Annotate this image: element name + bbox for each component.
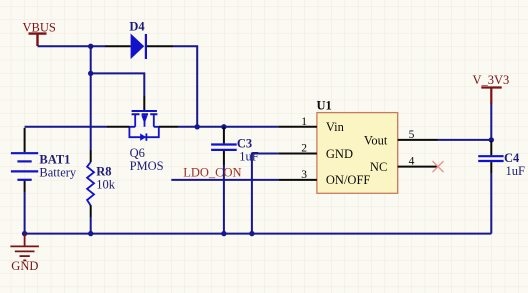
- rail junction at C3: [221, 231, 226, 236]
- svg-text:VBUS: VBUS: [23, 20, 56, 34]
- rail junction at pin2 wire: [249, 231, 254, 236]
- svg-text:C4: C4: [504, 151, 520, 165]
- wire LDO_CON to U1 pin3: [171, 179, 278, 181]
- wire C4 to rail: [490, 173, 492, 234]
- wire up to V_3V3: [490, 103, 492, 140]
- wire C3 to rail: [223, 165, 225, 234]
- svg-text:NC: NC: [370, 160, 387, 174]
- svg-text:D4: D4: [129, 20, 145, 34]
- wire Q6 right to U1 pin1: [178, 126, 278, 128]
- pin 2 GND: [278, 143, 353, 161]
- node junction E: [221, 124, 226, 129]
- diode D4: [105, 20, 173, 60]
- rail junction at battery/GND: [22, 231, 27, 236]
- node junction C: [195, 124, 200, 129]
- svg-text:3: 3: [301, 169, 307, 181]
- node junction A: [88, 44, 93, 49]
- svg-text:5: 5: [409, 129, 415, 141]
- no-connect X on pin 4: [433, 161, 444, 172]
- svg-text:PMOS: PMOS: [130, 159, 164, 173]
- power port VBUS: [23, 20, 56, 46]
- svg-text:R8: R8: [96, 164, 111, 178]
- Q6 right lead: [159, 126, 178, 128]
- transistor Q6 PMOS: [129, 96, 163, 173]
- wire battery bottom to rail: [24, 192, 26, 234]
- capacitor C3: [211, 127, 259, 165]
- svg-text:LDO_CON: LDO_CON: [183, 165, 241, 179]
- pin 4 NC: [370, 156, 438, 174]
- capacitor C4: [478, 141, 525, 178]
- ground GND: [10, 234, 39, 274]
- power port V_3V3: [473, 73, 510, 103]
- svg-text:2: 2: [301, 143, 307, 155]
- node junction pin5: [489, 137, 494, 142]
- rail junction at R8: [88, 231, 93, 236]
- wire D4 cathode to corner down to Vin node: [173, 46, 197, 127]
- svg-text:4: 4: [409, 156, 415, 168]
- svg-text:Q6: Q6: [130, 146, 145, 160]
- svg-text:1uF: 1uF: [506, 164, 526, 178]
- wire U1 pin2 to rail: [252, 154, 278, 234]
- svg-text:Vout: Vout: [364, 133, 388, 147]
- svg-text:C3: C3: [237, 136, 252, 150]
- svg-text:U1: U1: [317, 98, 332, 112]
- wire B to Q6 gate: [91, 73, 145, 96]
- svg-text:10k: 10k: [96, 177, 116, 191]
- svg-text:ON/OFF: ON/OFF: [326, 173, 371, 187]
- IC U1: [317, 98, 398, 193]
- svg-text:1uF: 1uF: [239, 150, 258, 164]
- wire battery to Q6 left: [25, 126, 107, 128]
- svg-text:1: 1: [301, 116, 307, 128]
- wire A down to B: [90, 46, 92, 73]
- wire B down to R8: [90, 73, 92, 150]
- node junction B: [88, 71, 93, 76]
- pin 1 Vin: [278, 116, 344, 134]
- ground rail wire: [25, 233, 492, 235]
- pin 3 ON/OFF: [278, 169, 370, 187]
- svg-text:BAT1: BAT1: [39, 152, 70, 166]
- wire R8 to rail: [90, 217, 92, 234]
- svg-text:Battery: Battery: [39, 166, 77, 180]
- pin 5 Vout: [364, 129, 438, 148]
- wire pin5 to V_3V3 / C4: [438, 139, 492, 141]
- svg-text:GND: GND: [326, 147, 353, 161]
- svg-text:GND: GND: [11, 259, 38, 273]
- resistor R8: [87, 150, 116, 217]
- svg-text:V_3V3: V_3V3: [473, 73, 510, 87]
- wire VBUS to D4 anode: [38, 45, 106, 47]
- svg-text:Vin: Vin: [326, 120, 345, 134]
- battery BAT1: [11, 128, 77, 192]
- Q6 left lead: [107, 126, 129, 128]
